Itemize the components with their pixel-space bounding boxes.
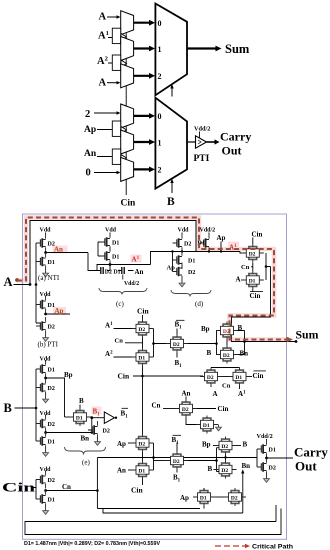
wire Cn lead row3	[163, 408, 175, 410]
ground (b)	[43, 335, 49, 341]
svg-text:0: 0	[158, 19, 162, 28]
wire bottom rail 2	[103, 509, 243, 514]
svg-text:Cn: Cn	[115, 338, 124, 345]
node A1 out of (c)	[109, 263, 112, 266]
svg-text:D2: D2	[231, 495, 238, 501]
svg-text:D1: D1	[48, 440, 55, 446]
wire TG col A join	[154, 329, 167, 358]
svg-text:D1: D1	[203, 423, 210, 429]
buffer tri X1	[121, 34, 127, 41]
wire Cin lead	[33, 487, 36, 489]
svg-text:Out: Out	[222, 144, 242, 158]
pass gate D1 (A2)	[132, 348, 154, 366]
svg-text:D2: D2	[173, 342, 180, 348]
svg-text:1: 1	[158, 138, 162, 147]
svg-text:D2: D2	[269, 466, 276, 472]
pass gate D2 (Bp bottom)	[215, 437, 237, 455]
brace (d)	[171, 290, 211, 297]
wire 0 to mux M6	[94, 172, 118, 174]
svg-text:Cin: Cin	[250, 292, 261, 300]
wire A lead	[14, 284, 31, 286]
svg-text:Vdd/2: Vdd/2	[194, 126, 210, 133]
pass gate D2 (B1bar)	[166, 335, 188, 353]
svg-text:D2: D2	[48, 422, 55, 428]
svg-text:D2: D2	[184, 242, 191, 248]
svg-text:(a) NTI: (a) NTI	[38, 274, 60, 282]
svg-text:B: B	[243, 440, 248, 448]
pass gate D2 (Cin)	[242, 244, 264, 262]
svg-text:Cin: Cin	[253, 372, 264, 380]
transistor D1 (c) mid	[101, 247, 111, 265]
svg-text:D2: D2	[249, 251, 256, 257]
node Cin label right row3	[197, 408, 216, 410]
wire row2 top link	[211, 367, 240, 369]
op-amp B1 inverter triangle	[92, 417, 105, 419]
svg-text:2: 2	[158, 166, 162, 175]
transistor D2 carry	[257, 458, 267, 476]
ground (a)	[43, 271, 49, 277]
svg-text:Vdd/2: Vdd/2	[124, 281, 139, 287]
transistor D1 carry	[257, 440, 267, 458]
mux U1 big (Sum)	[155, 4, 187, 96]
svg-text:D2: D2	[138, 327, 145, 333]
svg-text:D1: D1	[200, 495, 207, 501]
ground (d)	[179, 281, 185, 287]
wire Cin bus	[142, 315, 144, 435]
wire A to mux M3	[107, 82, 118, 84]
svg-text:D1: D1	[235, 375, 242, 381]
wire An to box	[97, 156, 112, 158]
svg-text:Out: Out	[295, 459, 317, 474]
svg-text:D1: D1	[112, 241, 119, 247]
svg-text:D1: D1	[188, 259, 195, 265]
wire M5 out arrow	[134, 141, 150, 143]
svg-text:Ap: Ap	[55, 307, 64, 315]
svg-text:D2: D2	[188, 270, 195, 276]
wire Carry out arrow	[207, 141, 216, 143]
wire gate rail (d) lower	[172, 252, 174, 272]
node Bn output	[44, 431, 47, 434]
svg-text:Critical Path: Critical Path	[252, 544, 293, 550]
brace (c)	[99, 288, 147, 295]
svg-text:D1: D1	[249, 278, 256, 284]
wire An out	[46, 252, 88, 254]
wire select line Cin vertical	[125, 13, 127, 195]
svg-text:An: An	[84, 149, 97, 159]
ground Bn	[43, 450, 49, 456]
svg-text:Bn: Bn	[81, 435, 90, 443]
critical path pink glow	[17, 218, 287, 340]
wire Ap to box	[97, 129, 112, 131]
wire left riser	[96, 458, 98, 509]
transistor D1 (b)	[36, 296, 46, 314]
svg-text:D1: D1	[138, 355, 145, 361]
svg-text:D1: D1	[112, 255, 119, 261]
node Cin-bar right row2	[251, 376, 253, 378]
pass gate D2 (A1)	[132, 320, 154, 338]
svg-text:PTI: PTI	[194, 154, 210, 164]
transistor D1 (d) lower	[173, 251, 183, 269]
node Bp output	[44, 377, 47, 380]
svg-text:Bn: Bn	[240, 350, 249, 358]
node An output	[53, 246, 68, 254]
svg-text:An: An	[117, 467, 126, 475]
svg-text:Ap: Ap	[84, 125, 96, 135]
svg-text:Vdd/2: Vdd/2	[200, 228, 216, 234]
buffer tri X2	[121, 60, 127, 67]
wire lowest TG links	[215, 496, 224, 498]
buffer box X2	[112, 55, 120, 70]
svg-text:D2: D2	[48, 386, 55, 392]
svg-text:Ap: Ap	[117, 440, 126, 448]
svg-text:2: 2	[158, 72, 162, 81]
buffer tri X3	[121, 127, 127, 134]
svg-text:(c): (c)	[116, 300, 124, 308]
wire Bn riser	[242, 473, 244, 514]
pass gate D2 (Bp) critical	[216, 322, 238, 340]
svg-text:D2: D2	[223, 353, 230, 359]
svg-text:Cin: Cin	[2, 481, 35, 495]
svg-text:A: A	[99, 78, 107, 89]
svg-text:(b) PTI: (b) PTI	[38, 341, 59, 349]
svg-text:D1: D1	[48, 368, 55, 374]
transistor D2 Cn	[36, 471, 46, 489]
mux U2 big (Carry)	[155, 98, 187, 189]
svg-text:(e): (e)	[82, 459, 90, 467]
svg-text:Vdd: Vdd	[178, 228, 190, 234]
transistor D2 (e)	[88, 421, 98, 439]
node Ap output	[44, 313, 47, 316]
node B1 label below	[176, 470, 178, 473]
transistor D1 Bn	[36, 432, 46, 450]
svg-text:2: 2	[85, 109, 90, 120]
wire Cin rail row	[133, 375, 203, 377]
wire M1 out arrow	[134, 22, 150, 24]
svg-text:D1: D1	[114, 269, 121, 275]
wire top frame A rail	[30, 221, 196, 285]
svg-text:Ap: Ap	[217, 234, 226, 242]
transistor D2 (d) lower	[173, 263, 183, 281]
pass gate D1 (An)	[132, 461, 154, 479]
svg-text:D2: D2	[221, 468, 228, 474]
wire TG gates link	[226, 340, 228, 346]
ground (e)	[95, 439, 101, 445]
svg-text:Cn: Cn	[241, 264, 250, 271]
wire A2 lead	[114, 356, 132, 358]
svg-text:D1: D1	[48, 498, 55, 504]
svg-text:Bp: Bp	[64, 371, 73, 379]
legend critical path	[215, 545, 245, 547]
wire bottom rail 1	[97, 508, 200, 510]
transistor D1 Bp	[36, 360, 46, 378]
transistor D1 (c) top	[101, 233, 111, 251]
node carry out	[265, 457, 268, 460]
wire select B arrow to U1	[171, 88, 173, 97]
wire join Bp/Bn out to sum line	[238, 331, 245, 355]
brace (e)	[65, 447, 106, 455]
pass gate D2 (Ap)	[132, 434, 154, 452]
transistor D2 (c) pair left	[97, 270, 110, 272]
svg-text:Carry: Carry	[220, 130, 251, 144]
border box	[23, 214, 287, 539]
pass gate D1 (e)	[69, 408, 91, 426]
transistor D2 (b)	[36, 317, 46, 335]
node B1-bar label mid-bottom	[173, 434, 182, 436]
mux M2 small	[121, 37, 134, 61]
wire gate rail A blocks	[35, 243, 37, 323]
svg-text:D1= 1.487nm |Vth|= 0.289V; D2=: D1= 1.487nm |Vth|= 0.289V; D2= 0.783nm |…	[24, 541, 160, 547]
transistor D2 Bp	[36, 379, 46, 397]
transistor D1 Cn	[36, 490, 46, 508]
transistor D1 (c) pair right	[118, 270, 134, 272]
wire M4 out arrow	[134, 115, 150, 117]
pass gate D2 (Bn row)	[216, 346, 238, 364]
wire M3 out arrow	[134, 75, 150, 77]
svg-text:Cin: Cin	[218, 405, 229, 413]
svg-text:Ap: Ap	[180, 494, 189, 502]
svg-text:A: A	[213, 390, 218, 398]
wire gate rail (c)	[97, 242, 99, 256]
svg-text:Cin: Cin	[252, 230, 263, 238]
svg-text:Sum: Sum	[225, 42, 250, 56]
wire out rail row	[97, 457, 257, 459]
wire U2 to PTI	[187, 141, 196, 143]
pass gate D2 (B-Bn bottom)	[215, 461, 237, 479]
svg-text:A: A	[4, 275, 13, 289]
wire A1 row	[150, 251, 240, 253]
svg-text:Vdd: Vdd	[105, 228, 117, 234]
wire select B arrow to U2	[171, 182, 173, 193]
ground Bp	[43, 397, 49, 403]
svg-text:B: B	[79, 397, 84, 405]
svg-text:D1: D1	[48, 260, 55, 266]
svg-text:D1: D1	[138, 468, 145, 474]
pass gate D1 (Ap lowest)	[193, 488, 215, 506]
wire (d) leads to row	[182, 251, 209, 254]
svg-text:B: B	[167, 196, 175, 208]
buffer box X4	[112, 149, 120, 164]
pass gate D2 row3	[175, 400, 197, 418]
svg-text:D2: D2	[48, 325, 55, 331]
node B1-bar label (e)	[122, 407, 129, 409]
svg-text:0: 0	[158, 112, 162, 121]
wire A to mux M1	[107, 16, 118, 18]
pass gate D2 (lowest right)	[224, 488, 246, 506]
svg-text:B: B	[4, 401, 12, 415]
svg-text:Carry: Carry	[294, 445, 328, 460]
transistor D2 Bn	[36, 415, 46, 433]
wire bottom rail 3	[25, 509, 281, 535]
svg-text:Bn: Bn	[242, 462, 251, 470]
ground row3	[216, 425, 222, 431]
wire gate rail B blocks	[35, 369, 37, 441]
wire mid TG leads	[154, 460, 167, 462]
svg-text:Cn: Cn	[152, 402, 161, 410]
svg-text:A: A	[236, 276, 241, 284]
node B1 label below	[176, 353, 178, 358]
ground carry	[264, 476, 270, 482]
wire A1 lead	[114, 328, 132, 330]
svg-text:D2: D2	[103, 429, 110, 435]
svg-text:1: 1	[158, 45, 162, 54]
svg-text:Vdd/2: Vdd/2	[257, 433, 273, 440]
buffer box X3	[112, 121, 120, 136]
wire M6 out arrow	[134, 168, 150, 170]
svg-text:D2: D2	[105, 269, 112, 275]
buffer tri X4	[121, 155, 127, 162]
node Cn output	[44, 489, 47, 492]
wire to Bp TGs	[188, 331, 217, 355]
transistor D1 (d)	[200, 234, 210, 252]
svg-text:Bp: Bp	[202, 441, 211, 449]
svg-text:D1: D1	[269, 448, 276, 454]
svg-text:B: B	[208, 465, 213, 473]
svg-text:D2: D2	[207, 375, 214, 381]
svg-text:Cin: Cin	[121, 199, 137, 209]
pass gate D2 row2	[200, 368, 222, 386]
svg-text:D1: D1	[76, 415, 83, 421]
svg-text:0: 0	[86, 168, 91, 179]
svg-text:Cin: Cin	[131, 486, 144, 495]
svg-text:Sum: Sum	[296, 328, 319, 342]
wire TG gates link bottom	[225, 455, 227, 461]
op-amp PTI triangle	[196, 136, 207, 148]
mux M5 small	[121, 130, 134, 154]
pass gate D1 row2	[229, 368, 251, 386]
wire B lead	[15, 407, 37, 409]
svg-text:D2: D2	[138, 441, 145, 447]
wire stack outputs join	[153, 443, 155, 470]
svg-text:D2: D2	[48, 478, 55, 484]
svg-text:Cn: Cn	[62, 483, 71, 491]
wire TG outputs join	[232, 253, 297, 342]
svg-text:An: An	[135, 268, 144, 276]
svg-text:B: B	[207, 349, 212, 357]
buffer box X1	[112, 28, 120, 43]
transistor D2 (d)	[173, 234, 183, 252]
svg-text:Cn: Cn	[222, 383, 231, 390]
svg-text:Cin: Cin	[118, 372, 131, 381]
wire Sum out	[187, 47, 217, 49]
pass gate D1 (A)	[242, 271, 264, 289]
svg-text:Ap: Ap	[167, 264, 176, 271]
wire B1 node down	[91, 418, 93, 433]
svg-text:Cin: Cin	[137, 307, 150, 316]
transistor D1 (a)	[36, 253, 46, 271]
svg-text:An: An	[182, 390, 191, 398]
wire Vdd/2 stub	[199, 132, 201, 138]
mux M4 small	[121, 104, 134, 128]
wire gate rail carry	[256, 449, 258, 467]
wire inter gates	[142, 452, 144, 461]
svg-text:Bp: Bp	[201, 325, 210, 333]
wire A1 to box	[108, 37, 112, 39]
svg-text:(d): (d)	[195, 300, 204, 308]
transistor D2 (a)	[36, 234, 46, 252]
node Cin label below stack	[142, 479, 144, 485]
pass gate D1 below row3	[196, 416, 218, 434]
wire 2 to mux M4	[94, 112, 118, 114]
mux M1 small	[121, 11, 134, 35]
node B1 (e)	[92, 407, 102, 415]
mux M3 small	[121, 64, 134, 88]
node B1-bar label	[176, 319, 185, 321]
mux M6 small	[121, 157, 134, 181]
svg-text:An: An	[54, 246, 63, 254]
svg-text:A: A	[99, 12, 107, 23]
pass gate D2 (B1bar bottom)	[166, 452, 188, 470]
node Cin-bar label bottom	[252, 289, 254, 292]
svg-text:D2: D2	[173, 459, 180, 465]
svg-text:D2: D2	[221, 444, 228, 450]
wire gate rail Cn block	[35, 480, 37, 500]
wire M2 out arrow	[134, 47, 150, 49]
ground Cn	[43, 508, 49, 514]
node A dot critical start	[15, 278, 19, 282]
svg-text:D2: D2	[182, 407, 189, 413]
wire A2 to box	[108, 62, 112, 64]
